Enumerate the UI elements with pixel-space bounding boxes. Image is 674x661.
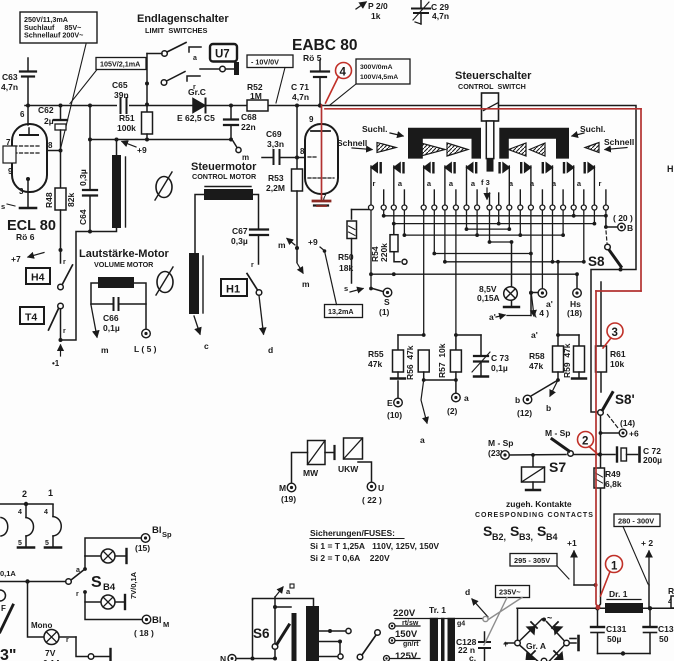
- red circle 2: [578, 432, 598, 454]
- svg-text:5: 5: [18, 540, 22, 547]
- control switch shaft: [482, 93, 499, 172]
- switch H4: [58, 265, 73, 290]
- svg-text:7: 7: [6, 138, 11, 147]
- limit switch contact a (top): [147, 43, 201, 63]
- svg-text:+1: +1: [567, 538, 577, 548]
- svg-text:a: a: [464, 393, 469, 403]
- svg-text:S: S: [510, 523, 519, 539]
- svg-text:3,3n: 3,3n: [267, 139, 284, 149]
- svg-text:m: m: [278, 240, 286, 250]
- svg-text:S: S: [483, 523, 492, 539]
- bus wires under control switch: [371, 216, 606, 274]
- resistor R48 82k: [44, 151, 76, 253]
- svg-text:2µ: 2µ: [44, 116, 54, 126]
- resistor R58 47k: [529, 346, 564, 396]
- svg-text:C 71: C 71: [291, 82, 309, 92]
- contact a below R56: [420, 380, 427, 445]
- svg-text:a: a: [420, 435, 425, 445]
- capacitor C72 200u: [602, 446, 662, 465]
- svg-text:s: s: [1, 202, 5, 211]
- svg-text:m: m: [101, 345, 109, 355]
- svg-text:6: 6: [20, 110, 25, 119]
- svg-text:Schnellauf 200V~: Schnellauf 200V~: [24, 31, 83, 40]
- svg-text:105V/2,1mA: 105V/2,1mA: [100, 60, 140, 69]
- cam cone far left: [377, 143, 396, 153]
- svg-text:82k: 82k: [66, 193, 76, 207]
- pin 8 wire into tube: [297, 147, 305, 158]
- svg-text:R59 47k: R59 47k: [562, 343, 572, 378]
- terminal M (19): [279, 453, 308, 505]
- terminal N: [220, 654, 236, 661]
- box H1: [221, 279, 247, 296]
- svg-text:0,1µ: 0,1µ: [491, 363, 508, 373]
- terminal a' (4): [534, 289, 553, 318]
- svg-text:4,7n: 4,7n: [1, 82, 18, 92]
- resistor R57 10k: [437, 333, 481, 393]
- svg-text:R49: R49: [605, 469, 621, 479]
- svg-text:S: S: [537, 523, 546, 539]
- svg-text:13,2mA: 13,2mA: [328, 307, 354, 316]
- svg-text:(1): (1): [379, 307, 390, 317]
- svg-text:+9: +9: [308, 237, 318, 247]
- svg-text:R50: R50: [338, 252, 354, 262]
- svg-text:d: d: [268, 345, 273, 355]
- svg-text:Gr.C: Gr.C: [188, 87, 206, 97]
- mains transformer Tr.1: [395, 605, 483, 661]
- contact arrowheads row: [370, 162, 595, 174]
- svg-text:Si 1 = T 1,25A 110V, 125V, 1: Si 1 = T 1,25A 110V, 125V, 150V: [310, 541, 439, 551]
- pointer line from 250V box: [60, 44, 86, 151]
- svg-text:- 10V/0V: - 10V/0V: [251, 58, 279, 67]
- svg-text:2: 2: [582, 436, 588, 448]
- label Suchl. left: [362, 124, 403, 136]
- wire limit switches to node: [146, 54, 148, 105]
- svg-text:Gr. A: Gr. A: [526, 641, 546, 651]
- svg-text:C66: C66: [103, 313, 119, 323]
- svg-text:R51: R51: [119, 113, 135, 123]
- svg-text:r: r: [63, 328, 66, 335]
- pointer line from 105V box: [70, 70, 97, 104]
- svg-text:MW: MW: [303, 468, 319, 478]
- voltage selector switch: [357, 630, 380, 660]
- svg-text:Steuerschalter: Steuerschalter: [455, 70, 532, 82]
- svg-text:1k: 1k: [371, 11, 381, 21]
- svg-text:8: 8: [48, 141, 53, 150]
- svg-text:4: 4: [44, 509, 48, 516]
- contact drop wires: [371, 210, 606, 335]
- svg-text:CONTROL SWITCH: CONTROL SWITCH: [458, 82, 526, 91]
- svg-text:f 3: f 3: [481, 178, 490, 187]
- svg-text:+7: +7: [11, 254, 21, 264]
- svg-text:0,3µ: 0,3µ: [78, 169, 88, 186]
- resistor R52: [247, 82, 268, 111]
- svg-text:Rö 5: Rö 5: [303, 53, 322, 63]
- svg-text:R58: R58: [529, 351, 545, 361]
- resistor R56 47k: [405, 345, 456, 382]
- svg-text:200µ: 200µ: [643, 455, 662, 465]
- capacitor C63: [1, 58, 36, 106]
- label Suchl. right: [572, 124, 606, 136]
- svg-text:LIMIT SWITCHES: LIMIT SWITCHES: [145, 26, 207, 35]
- node a' arrow: [489, 254, 538, 341]
- box T4: [20, 307, 44, 324]
- wire pin6: [27, 106, 29, 126]
- main wire bus y=105.5: [25, 105, 320, 107]
- coil 1 (pins 4,5): [44, 505, 61, 548]
- svg-text:C13: C13: [658, 624, 674, 634]
- label Schnell left: [337, 138, 372, 150]
- wire N to S6 and frame: [237, 658, 276, 660]
- svg-text:Sicherungen/FUSES:: Sicherungen/FUSES:: [310, 528, 395, 538]
- terminal B (20): [604, 213, 633, 233]
- svg-text:6,8k: 6,8k: [605, 479, 622, 489]
- switch below Mono: [76, 637, 111, 661]
- svg-text:UKW: UKW: [338, 464, 359, 474]
- svg-text:c: c: [204, 341, 209, 351]
- svg-text:9: 9: [309, 115, 314, 124]
- node +7: [11, 253, 44, 265]
- svg-text:50: 50: [659, 634, 669, 644]
- capacitor C131 50u: [591, 608, 627, 653]
- svg-text:(15): (15): [135, 543, 150, 553]
- svg-text:r: r: [63, 259, 66, 266]
- svg-text:B4: B4: [103, 582, 116, 593]
- label Sicherungen/FUSES: [310, 528, 439, 563]
- svg-text:280 - 300V: 280 - 300V: [618, 517, 654, 526]
- svg-text:s: s: [344, 284, 348, 293]
- tube EABC80 envelope: [305, 124, 338, 194]
- switch F at left edge: [0, 590, 13, 632]
- svg-text:125V: 125V: [395, 651, 418, 661]
- svg-text:C69: C69: [266, 129, 282, 139]
- control motor winding top: [195, 187, 259, 254]
- box H4: [26, 268, 50, 284]
- capacitor C69: [262, 129, 299, 164]
- svg-text:0,3µ: 0,3µ: [231, 236, 248, 246]
- svg-text:18k: 18k: [339, 263, 353, 273]
- bus junction dots: [369, 214, 608, 295]
- motor symbol: [155, 172, 172, 200]
- svg-text:c.: c.: [469, 653, 476, 661]
- capacitor C62 electrolytic: [38, 104, 67, 151]
- node s: [1, 202, 15, 211]
- svg-text:3: 3: [19, 187, 24, 196]
- relay MW: [303, 441, 335, 479]
- resistor R51: [117, 106, 153, 142]
- node 1 marker below T4: [52, 345, 61, 368]
- capacitor C132 50u: [644, 608, 674, 653]
- terminal S (1): [379, 288, 392, 317]
- svg-text:N: N: [220, 654, 226, 661]
- svg-text:a: a: [193, 55, 197, 62]
- terminal Hs (18): [567, 274, 582, 318]
- terminal U (22): [362, 482, 384, 505]
- svg-text:Suchl.: Suchl.: [362, 124, 388, 134]
- svg-text:+9: +9: [137, 145, 147, 155]
- svg-text:C67: C67: [232, 226, 248, 236]
- switch S8': [598, 392, 636, 435]
- note box 280-300V: [614, 514, 660, 584]
- output transformer core: [275, 606, 319, 661]
- svg-text:4: 4: [18, 509, 22, 516]
- wire Bl Sp to lamp: [85, 538, 141, 556]
- choke Dr.1: [517, 589, 674, 613]
- note box -10V/0V: [247, 55, 293, 103]
- capacitor C71: [291, 60, 329, 108]
- svg-text:•1: •1: [52, 359, 60, 368]
- triode ECL80 envelope: [3, 124, 47, 192]
- svg-text:H1: H1: [226, 284, 240, 296]
- switch S6: [253, 597, 289, 661]
- svg-text:P 2/0: P 2/0: [368, 1, 388, 11]
- svg-text:47k: 47k: [529, 361, 543, 371]
- svg-text:B: B: [627, 223, 633, 233]
- svg-text:C64: C64: [78, 209, 88, 225]
- svg-text:7V: 7V: [45, 648, 56, 658]
- svg-text:300V/0mA: 300V/0mA: [360, 64, 393, 71]
- svg-text:47k: 47k: [368, 359, 382, 369]
- red circle 1: [601, 556, 623, 597]
- bottom bus wire: [598, 653, 651, 655]
- resistor R61 10k: [596, 282, 626, 392]
- svg-text:S: S: [384, 297, 390, 307]
- cam cone pair left: [421, 143, 445, 156]
- svg-text:a': a': [531, 330, 538, 340]
- contact b arrow: [546, 380, 558, 413]
- svg-text:(18): (18): [567, 308, 582, 318]
- cathode wire and ground: [20, 177, 36, 208]
- switch SB4 pivot: [0, 571, 83, 585]
- svg-text:R61: R61: [610, 349, 626, 359]
- svg-text:4,7n: 4,7n: [432, 11, 449, 21]
- contacts m below R53: [278, 239, 310, 290]
- svg-text:R: R: [668, 586, 674, 596]
- svg-text:4: 4: [340, 67, 347, 79]
- svg-text:H4: H4: [31, 272, 45, 284]
- svg-text:r: r: [251, 262, 254, 269]
- note box 300V/0mA: [330, 59, 410, 105]
- svg-text:3": 3": [0, 647, 16, 661]
- terminal Bl M (18): [85, 602, 169, 638]
- svg-text:+ 2: + 2: [641, 538, 653, 548]
- svg-text:U: U: [378, 483, 384, 493]
- terminal L(5): [134, 329, 157, 354]
- node +9 arrow at volume motor: [122, 142, 147, 156]
- svg-text:~: ~: [547, 613, 552, 623]
- junction C72 node: [598, 452, 602, 456]
- svg-text:Schnell: Schnell: [604, 137, 634, 147]
- svg-text:r: r: [373, 179, 376, 188]
- switch H1: [247, 274, 273, 356]
- contact c below control motor: [194, 316, 209, 351]
- svg-text:Sp: Sp: [162, 530, 172, 539]
- svg-text:+6: +6: [629, 429, 639, 439]
- svg-text:9: 9: [8, 167, 13, 176]
- switch S7: [545, 428, 598, 475]
- pin 8 wire: [47, 150, 61, 152]
- svg-text:R48: R48: [44, 192, 54, 208]
- svg-text:0,1µ: 0,1µ: [103, 323, 120, 333]
- svg-text:M: M: [163, 620, 169, 629]
- svg-text:M - Sp: M - Sp: [545, 428, 571, 438]
- capacitor C67: [231, 226, 268, 264]
- svg-text:R57 10k: R57 10k: [437, 343, 447, 378]
- label Schnell right: [604, 137, 634, 150]
- svg-text:S7: S7: [549, 459, 566, 475]
- resistor R53 2,2M: [266, 104, 303, 263]
- partial coil at left edge: [1, 518, 8, 537]
- svg-text:220k: 220k: [379, 243, 389, 262]
- svg-text:C131: C131: [606, 624, 627, 634]
- svg-text:R53: R53: [268, 173, 284, 183]
- potentiometer P2/0 1k: [356, 1, 388, 21]
- svg-text:E 62,5 C5: E 62,5 C5: [177, 113, 215, 123]
- wire to bridge rectifier: [517, 608, 519, 640]
- node +9 near EABC: [308, 237, 337, 305]
- svg-text:H: H: [667, 164, 674, 174]
- svg-text:C63: C63: [2, 72, 18, 82]
- svg-text:100V/4,5mA: 100V/4,5mA: [360, 74, 398, 81]
- svg-text:Si 2 = T 0,6A 220V: Si 2 = T 0,6A 220V: [310, 553, 390, 563]
- svg-text:S8': S8': [615, 392, 635, 407]
- terminal a (2): [447, 393, 469, 416]
- svg-text:gn/rt: gn/rt: [403, 641, 419, 648]
- svg-text:b: b: [515, 395, 520, 405]
- svg-text:3: 3: [612, 327, 618, 339]
- svg-text:d: d: [465, 587, 470, 597]
- svg-text:S8: S8: [588, 254, 605, 269]
- svg-text:( 4 ): ( 4 ): [534, 308, 549, 318]
- svg-text:CONTROL MOTOR: CONTROL MOTOR: [192, 172, 257, 181]
- svg-text:+: +: [503, 639, 508, 649]
- svg-text:2,2M: 2,2M: [266, 183, 285, 193]
- terminal E (10): [387, 381, 402, 420]
- svg-text:220V: 220V: [393, 608, 416, 619]
- limit switch contact r (lower): [161, 72, 200, 92]
- wiper f3: [481, 178, 490, 199]
- svg-text:E: E: [387, 398, 393, 408]
- svg-text:2: 2: [22, 489, 27, 499]
- contact a above S6: [275, 584, 294, 597]
- svg-text:(12): (12): [517, 408, 532, 418]
- bridge dc output symbol: [570, 636, 579, 650]
- contact d near Tr.1: [465, 587, 488, 617]
- svg-text:Dr. 1: Dr. 1: [609, 589, 628, 599]
- lamp 8,5V 0,15A: [477, 242, 519, 307]
- bridge rectifier Gr.A: [503, 613, 569, 661]
- svg-text:b: b: [546, 403, 551, 413]
- svg-text:100k: 100k: [117, 123, 136, 133]
- resistor R55 47k: [368, 335, 405, 379]
- cam cone pair right: [509, 143, 527, 156]
- terminal +6: [619, 429, 639, 439]
- coil 2 (pins 4,5): [18, 505, 34, 548]
- node +1 arrow: [567, 538, 597, 587]
- control motor winding bar vertical: [189, 253, 203, 314]
- capacitor C65: [112, 80, 129, 113]
- svg-text:(2): (2): [447, 406, 458, 416]
- label S B4: [91, 574, 116, 593]
- svg-text:U7: U7: [215, 49, 230, 61]
- svg-text:Bl: Bl: [152, 525, 162, 536]
- node +2 arrow: [641, 538, 653, 608]
- contact r above H4: [61, 250, 67, 266]
- tube bottom cap: [314, 204, 328, 206]
- svg-text:(10): (10): [387, 410, 402, 420]
- lower bus wire y=139.5: [90, 139, 231, 141]
- svg-text:M: M: [279, 483, 286, 493]
- svg-text:a': a': [489, 312, 496, 322]
- capacitor C128 22n: [456, 632, 490, 661]
- main top wire to right frame: [320, 106, 636, 413]
- note box 250V/11,3mA: [20, 12, 97, 43]
- svg-text:r: r: [66, 637, 69, 644]
- red circle 4: [326, 63, 352, 104]
- svg-text:8: 8: [300, 147, 305, 156]
- svg-text:M - Sp: M - Sp: [488, 438, 514, 448]
- capacitor C64 0,3u: [78, 104, 97, 234]
- contact r of SB4: [76, 590, 87, 598]
- svg-text:7V/0,1A: 7V/0,1A: [129, 571, 138, 599]
- capacitor C73 0,1u: [472, 335, 509, 377]
- svg-text:EABC 80: EABC 80: [292, 37, 357, 54]
- wire M-Sp to S7: [510, 454, 567, 457]
- svg-text:1: 1: [611, 561, 618, 573]
- svg-text:0,15A: 0,15A: [477, 293, 500, 303]
- contact circles row: [369, 205, 609, 210]
- bridge + lead: [505, 642, 515, 644]
- svg-text:T4: T4: [25, 312, 37, 324]
- svg-text:5: 5: [45, 540, 49, 547]
- svg-text:( 20 ): ( 20 ): [613, 213, 633, 223]
- contact s and switch to S: [344, 284, 383, 293]
- transformer taps: [319, 628, 351, 659]
- box U7: [210, 44, 237, 62]
- svg-text:S6: S6: [253, 626, 270, 641]
- svg-text:10k: 10k: [610, 359, 624, 369]
- red circle 3: [603, 323, 623, 348]
- label SB2 SB3 SB4: [483, 523, 558, 542]
- red ground at EABC cathode: [313, 198, 330, 206]
- note box 105V/2,1mA: [96, 58, 146, 70]
- svg-text:zugeh. Kontakte: zugeh. Kontakte: [506, 499, 572, 509]
- svg-text:g4: g4: [457, 621, 465, 628]
- contact m below volume motor: [91, 305, 109, 355]
- svg-text:Schnell: Schnell: [337, 138, 367, 148]
- lamp Bl Sp: [85, 549, 127, 563]
- terminal b (12): [515, 395, 532, 418]
- resistor R cut at edge: [668, 586, 674, 608]
- svg-text:Endlagenschalter: Endlagenschalter: [137, 13, 229, 25]
- contact stems above circles: [371, 166, 606, 205]
- wire coil top bus: [0, 503, 53, 505]
- contact a of SB4: [76, 556, 87, 574]
- volume motor armature bar: [91, 277, 146, 329]
- svg-text:Mono: Mono: [31, 621, 52, 630]
- resistor R50 18k: [338, 210, 369, 284]
- wire C64 node to T4 area: [61, 232, 91, 341]
- svg-text:R56 47k: R56 47k: [405, 345, 415, 380]
- connector blob under U7: [234, 62, 239, 75]
- svg-text:150V: 150V: [395, 629, 418, 640]
- limit switch contact to U7: [200, 68, 219, 70]
- svg-text:m: m: [302, 279, 310, 289]
- node R58/R59 top: [557, 262, 559, 346]
- svg-text:VOLUME MOTOR: VOLUME MOTOR: [94, 260, 154, 269]
- resistor R59 47k: [562, 335, 586, 379]
- capacitor C66: [91, 298, 146, 333]
- contact letters row: [373, 179, 602, 188]
